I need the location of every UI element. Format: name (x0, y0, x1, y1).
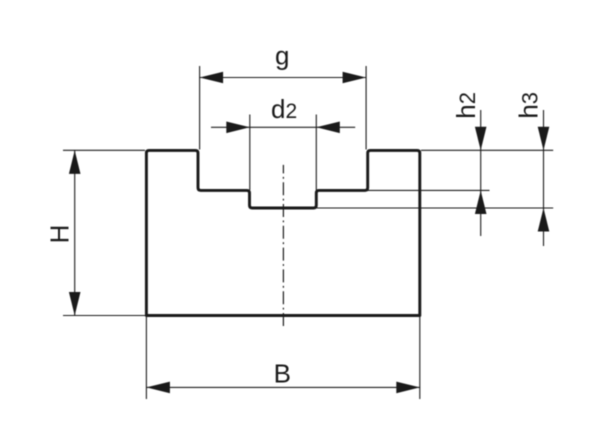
svg-text:h3: h3 (513, 92, 543, 119)
dim B: right arrowhead (396, 382, 420, 394)
dim B: right extension line (419, 317, 421, 399)
dim d2: dimension line with outside tails (211, 126, 355, 128)
dim g: right arrowhead (343, 72, 367, 84)
dim h3: dimension line (543, 110, 545, 208)
dim h3: top arrowhead (points down, tip at top line) (538, 127, 550, 151)
h2 lower extension line (middle step level) (368, 189, 490, 191)
svg-text:d2: d2 (271, 94, 297, 124)
svg-text:g: g (275, 41, 289, 71)
dim g: right extension line (365, 66, 367, 150)
dim g: left arrowhead (200, 72, 224, 84)
dim H: dimension line (74, 150, 76, 315)
profile outline (146, 150, 419, 315)
dim h3: lower tail (543, 208, 545, 246)
dim H: bottom arrowhead (69, 292, 81, 316)
dim g: left extension line (199, 66, 201, 150)
dim H: top extension line (63, 149, 145, 151)
svg-text:h2: h2 (451, 92, 481, 119)
dim d2: left arrowhead (points right, tip at left ext line) (226, 122, 250, 134)
dim g: dimension line (200, 77, 367, 79)
dim B: left extension line (145, 317, 147, 399)
dim H: bottom extension line (63, 315, 145, 317)
dim B: dimension line (146, 386, 419, 388)
dim H: top arrowhead (69, 150, 81, 174)
centerline (vertical dash-dot axis) (282, 165, 284, 330)
dim d2: right arrowhead (points left, tip at right ext line) (316, 122, 340, 134)
dim h2: top arrowhead (points down, tip at top line) (475, 127, 487, 151)
dim h3: bottom arrowhead (points up, tip at groove bottom line) (538, 208, 550, 232)
svg-text:B: B (274, 359, 291, 389)
dim h2: lower tail (480, 191, 482, 237)
dim B: left arrowhead (146, 382, 170, 394)
right side shared top extension line (shoulder top level) (421, 149, 553, 151)
dim d2: left extension line (249, 115, 251, 191)
dim h2: bottom arrowhead (points up, tip at middle line) (475, 191, 487, 215)
svg-text:H: H (44, 225, 74, 244)
h3 lower extension line (groove bottom level) (317, 207, 553, 209)
dim d2: right extension line (315, 115, 317, 191)
dim h2: dimension line (480, 110, 482, 191)
